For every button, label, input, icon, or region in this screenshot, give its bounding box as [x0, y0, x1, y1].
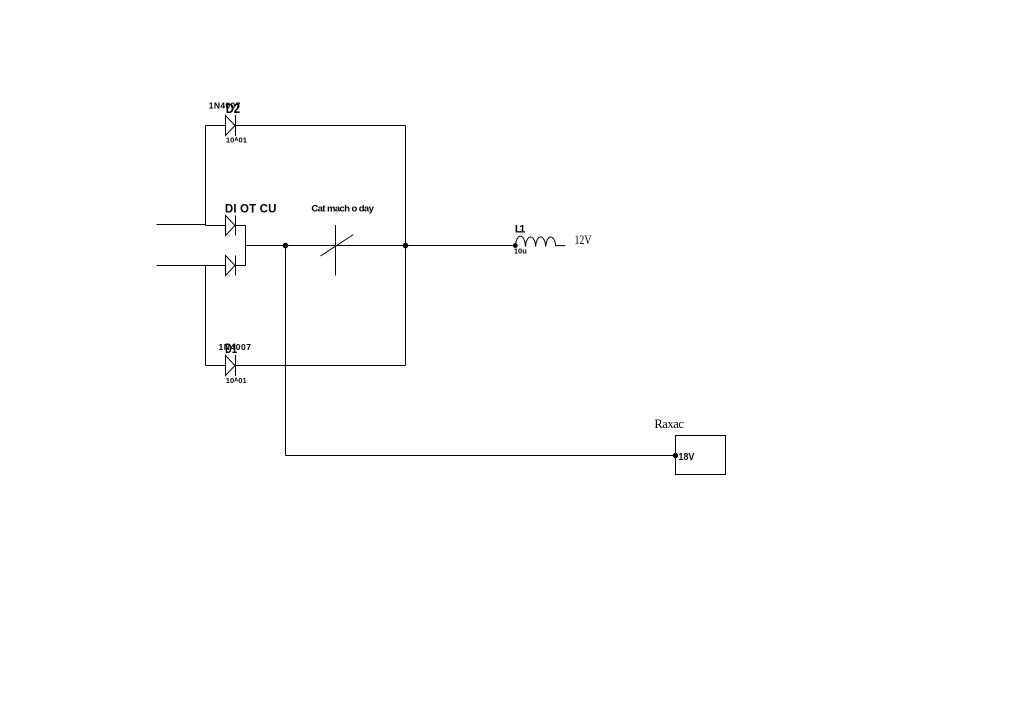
svg-text:Cat mach o day: Cat mach o day [311, 203, 374, 214]
wire top horizontal from D2 cathode to right vertical [236, 125, 406, 127]
svg-text:D2: D2 [226, 101, 240, 116]
switch cut-mark vertical [335, 225, 337, 276]
svg-text:Raxac: Raxac [654, 417, 684, 431]
wire joining vertical of diode pair outputs [245, 226, 247, 266]
inductor L1 [515, 236, 565, 246]
svg-text:D1: D1 [225, 341, 237, 356]
diode lower of DI OT CU pair [226, 256, 236, 276]
wire upper AC input left part [157, 224, 206, 226]
wire left vertical lower part (lower AC input down to D1 anode) [205, 266, 207, 366]
node junction at inductor input [513, 243, 518, 248]
node junction at x=285 [283, 243, 289, 249]
wire upper diode cathode to join vertical [236, 225, 246, 227]
wire top-left vertical from D2 anode down to upper AC input [205, 126, 207, 226]
svg-text:18V: 18V [679, 452, 695, 463]
wire lower AC input [157, 265, 226, 267]
svg-text:L1: L1 [515, 223, 526, 235]
switch cut-mark diagonal [321, 235, 354, 257]
diode D1 [226, 355, 236, 376]
diode D2 [226, 115, 236, 136]
wire lower diode cathode to join vertical [236, 265, 246, 267]
wire D1 anode lead [206, 365, 226, 367]
svg-text:12V: 12V [575, 232, 592, 247]
block Raxac source box [676, 436, 726, 475]
node junction at x=405 [403, 243, 409, 249]
wire right vertical of loop [405, 126, 407, 366]
wire upper AC input right part (1px jog) [206, 225, 226, 227]
wire main output horizontal to inductor [246, 245, 516, 247]
wire vertical down from junction to Raxac feed [285, 246, 287, 456]
wire bottom horizontal from D1 cathode to right vertical [236, 365, 406, 367]
node junction at Raxac input [673, 453, 678, 458]
diode upper of DI OT CU pair [226, 216, 236, 236]
svg-text:10u: 10u [514, 247, 527, 256]
wire D2 anode lead [206, 125, 226, 127]
wire horizontal feed to Raxac box [286, 455, 676, 457]
svg-text:DI OT CU: DI OT CU [225, 204, 277, 216]
